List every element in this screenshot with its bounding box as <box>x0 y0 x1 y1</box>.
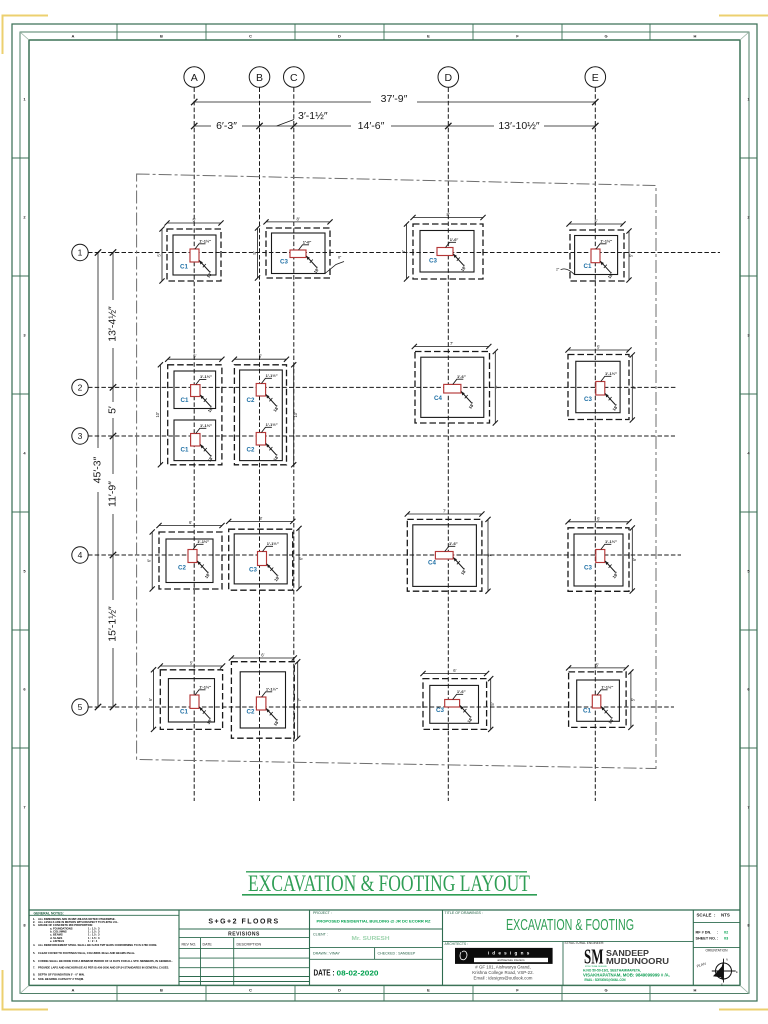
grid line C (vertical) <box>293 88 295 802</box>
svg-text:C4: C4 <box>434 395 442 402</box>
svg-text:F: F <box>516 34 519 39</box>
svg-text:G: G <box>604 987 607 992</box>
svg-text:5′: 5′ <box>597 516 600 521</box>
line under drawn row <box>310 958 443 960</box>
svg-text:N: N <box>726 958 728 962</box>
svg-text:SCALE: SCALE <box>697 913 712 918</box>
svg-text:PLAN: PLAN <box>696 962 707 969</box>
grid bubble D <box>438 67 459 88</box>
title block divider middle/project <box>309 910 311 985</box>
svg-text:9.: 9. <box>33 977 35 981</box>
svg-text:18″: 18″ <box>272 404 280 412</box>
grid line 3 (horizontal) <box>88 435 675 437</box>
yellow corner mark bottom-right <box>719 1009 768 1011</box>
svg-text:5′: 5′ <box>157 253 162 256</box>
svg-text:18″: 18″ <box>206 717 214 725</box>
grid bubble C <box>284 67 305 88</box>
svg-text:6: 6 <box>23 687 26 692</box>
footing C3 at B-4 <box>226 516 303 591</box>
svg-text:8′: 8′ <box>296 216 299 221</box>
svg-text:5′: 5′ <box>630 698 635 701</box>
architects logo <box>455 948 553 964</box>
svg-text:C1: C1 <box>180 264 188 271</box>
footing C3 at D-5 <box>420 668 495 732</box>
svg-text:5.: 5. <box>33 951 35 955</box>
svg-text:7.: 7. <box>33 965 35 969</box>
svg-text:5′: 5′ <box>252 251 257 254</box>
svg-text:18″: 18″ <box>207 454 215 462</box>
dimension line segments left (13'-4 1/2", 5', 11'-9", 15'-1 1/2") <box>112 253 114 708</box>
svg-text:6′-3″: 6′-3″ <box>216 120 237 132</box>
svg-text:6′: 6′ <box>453 668 456 673</box>
svg-text:C3: C3 <box>280 259 288 266</box>
grid bubble 5 <box>72 699 88 715</box>
svg-text:REV NO.: REV NO. <box>182 943 197 947</box>
divider drawn/checked <box>374 948 376 960</box>
svg-text:13′-10½″: 13′-10½″ <box>498 120 540 132</box>
svg-text:7′: 7′ <box>297 698 302 701</box>
grid bubble E <box>585 67 606 88</box>
svg-text:PROJECT :: PROJECT : <box>313 911 332 915</box>
grid bubble A <box>184 67 205 88</box>
svg-text:Krishna College Road, VSP-22.: Krishna College Road, VSP-22. <box>472 970 534 975</box>
svg-text:E: E <box>427 34 430 39</box>
footing C2 at A-4 <box>147 520 225 592</box>
svg-text:VISAKHAPATNAM, MOB: 9849099999: VISAKHAPATNAM, MOB: 9849099999 # /A. <box>583 973 670 978</box>
svg-text:1: 1 <box>78 248 83 258</box>
svg-text:i d e s i g n s: i d e s i g n s <box>488 951 531 956</box>
svg-text:EXCAVATION & FOOTING LAYOUT: EXCAVATION & FOOTING LAYOUT <box>248 871 530 896</box>
svg-text:5′: 5′ <box>259 354 262 359</box>
svg-text:1 : 2 : 4: 1 : 2 : 4 <box>88 939 98 943</box>
svg-text:SHEET NO.: SHEET NO. <box>696 936 716 940</box>
grid line D (vertical) <box>447 88 449 802</box>
svg-text:6′: 6′ <box>632 386 637 389</box>
footing C1 at E-5 <box>566 662 635 730</box>
svg-text:SOIL BEARING CAPACITY 2 T/SQM.: SOIL BEARING CAPACITY 2 T/SQM. <box>38 977 84 981</box>
footing C1 at A-1 <box>157 218 224 284</box>
svg-text:18″: 18″ <box>466 715 474 723</box>
svg-text:5: 5 <box>78 702 83 712</box>
svg-text:A: A <box>72 34 75 39</box>
svg-text:6′: 6′ <box>632 558 637 561</box>
svg-text:5′: 5′ <box>629 254 634 257</box>
border reference strip ticks horizontal <box>116 24 118 40</box>
svg-text:B: B <box>160 34 163 39</box>
svg-text:10′: 10′ <box>293 412 298 418</box>
svg-text::: : <box>717 936 718 940</box>
svg-text:13′-4½″: 13′-4½″ <box>107 306 119 342</box>
svg-text:TITLE OF DRAWINGS :: TITLE OF DRAWINGS : <box>445 911 483 915</box>
svg-text:18″: 18″ <box>607 271 615 279</box>
footing C1 pair at A-2/3 <box>155 354 225 468</box>
svg-text:C: C <box>249 987 252 992</box>
svg-text:DEPTH OF FOUNDATION 5′ - 0″ MI: DEPTH OF FOUNDATION 5′ - 0″ MIN. <box>38 973 85 977</box>
corner chamfer top-right <box>740 32 749 40</box>
yellow corner mark top-left <box>3 16 49 55</box>
yellow corner mark top-right <box>719 15 768 17</box>
svg-text:5: 5 <box>747 569 750 574</box>
svg-text:1′-1½″: 1′-1½″ <box>600 238 612 243</box>
svg-text:S: S <box>721 983 723 987</box>
footing C1 at E-1 <box>556 219 634 283</box>
svg-text:C1: C1 <box>584 263 592 270</box>
svg-text:C2: C2 <box>247 447 255 454</box>
svg-text:18″: 18″ <box>460 567 468 575</box>
svg-text:# GF 101, Aishwarya Grand,: # GF 101, Aishwarya Grand, <box>475 964 530 969</box>
svg-text:5′: 5′ <box>596 662 599 667</box>
svg-text:F: F <box>516 987 519 992</box>
svg-text:18″: 18″ <box>607 716 615 724</box>
svg-text:08-02-2020: 08-02-2020 <box>337 970 379 977</box>
grid line E (vertical) <box>594 88 596 802</box>
svg-text:7: 7 <box>747 805 750 810</box>
svg-text:C2: C2 <box>178 565 186 572</box>
svg-text:4: 4 <box>747 451 750 456</box>
border reference strip ticks vertical <box>12 157 29 159</box>
footing C3 at D-1 <box>401 212 486 282</box>
svg-text:14′-6″: 14′-6″ <box>358 120 385 132</box>
svg-text:8.: 8. <box>33 973 35 977</box>
svg-text:D: D <box>338 34 341 39</box>
svg-text:4.: 4. <box>33 943 35 947</box>
svg-text:8′: 8′ <box>446 212 449 217</box>
svg-text:CURING SHALL BE DONE FOR A MIN: CURING SHALL BE DONE FOR A MINIMUM PERIO… <box>38 959 173 963</box>
grid line A (vertical) <box>193 88 195 802</box>
svg-text:6′: 6′ <box>147 559 152 562</box>
footing C1 at A-5 <box>148 661 225 733</box>
svg-text:ALL REINFORCEMENT STEEL SHALL: ALL REINFORCEMENT STEEL SHALL BE Fe500 T… <box>38 943 157 947</box>
svg-text:C4: C4 <box>428 560 436 567</box>
svg-text:CLIENT :: CLIENT : <box>313 932 328 936</box>
footing C2 pair at B-2/3 <box>232 354 298 468</box>
grid bubble 1 <box>72 244 88 260</box>
title block divider project/title <box>442 910 444 985</box>
svg-text:18″: 18″ <box>468 401 476 409</box>
svg-text:3: 3 <box>23 333 26 338</box>
svg-text:EXCAVATION & FOOTING: EXCAVATION & FOOTING <box>506 917 634 934</box>
svg-text:DRAWN : VINAY: DRAWN : VINAY <box>313 951 341 955</box>
drawing title overline <box>246 871 527 873</box>
svg-text:37′-9″: 37′-9″ <box>381 93 408 105</box>
svg-text:B: B <box>160 987 163 992</box>
footing C3 at E-2 <box>565 345 636 423</box>
svg-text:H: H <box>694 34 697 39</box>
title block top line <box>29 909 740 911</box>
grid bubble 3 <box>72 428 88 444</box>
svg-text:G: G <box>604 34 607 39</box>
corner chamfer bottom-right <box>740 985 749 993</box>
svg-text:18″: 18″ <box>207 405 215 413</box>
svg-text:6: 6 <box>747 687 750 692</box>
svg-text:ARCHITECTS :: ARCHITECTS : <box>445 942 469 946</box>
title block divider notes/middle <box>178 910 180 985</box>
line under scale row <box>693 921 740 923</box>
svg-text:A: A <box>191 72 198 84</box>
svg-text:E: E <box>592 72 599 84</box>
dimension line 45'-3" (overall left) <box>97 253 99 708</box>
yellow corner mark bottom-left <box>3 970 49 1010</box>
line under project row <box>310 928 443 930</box>
line under sheet row <box>693 946 740 948</box>
svg-text:2: 2 <box>23 215 26 220</box>
svg-text:B: B <box>256 72 263 84</box>
svg-text:D: D <box>338 987 341 992</box>
footing C2 at B-5 <box>229 653 302 741</box>
svg-text:8′: 8′ <box>259 516 262 521</box>
svg-text:DATE :: DATE : <box>314 968 335 978</box>
svg-text:6′: 6′ <box>189 520 192 525</box>
svg-text:5′: 5′ <box>193 354 196 359</box>
dimension line 37'-9" (overall top) <box>194 101 595 103</box>
svg-text:NTS: NTS <box>721 913 730 918</box>
grid bubble B <box>249 67 270 88</box>
svg-text:1′-1½″: 1′-1½″ <box>266 422 278 427</box>
grid line B (vertical) <box>259 88 261 802</box>
svg-text:2″: 2″ <box>556 268 560 272</box>
grid line 5 (horizontal) <box>88 706 674 708</box>
svg-text:C1: C1 <box>583 708 591 715</box>
svg-text:C: C <box>249 34 252 39</box>
svg-text:5′: 5′ <box>190 661 193 666</box>
svg-text:18″: 18″ <box>273 574 281 582</box>
svg-text:7′: 7′ <box>450 341 453 346</box>
line under floors cell <box>179 928 310 930</box>
svg-text:1′-1½″: 1′-1½″ <box>266 373 278 378</box>
line under client row <box>310 947 443 949</box>
svg-text:45′-3″: 45′-3″ <box>92 456 104 483</box>
svg-text:3: 3 <box>747 333 750 338</box>
general notes list <box>33 917 173 981</box>
svg-text:H: H <box>694 987 697 992</box>
svg-text:1: 1 <box>747 97 750 102</box>
line under revisions header <box>179 937 310 939</box>
svg-text:18″: 18″ <box>206 270 214 278</box>
svg-text:5′: 5′ <box>107 406 119 414</box>
svg-text:2: 2 <box>747 215 750 220</box>
svg-text:6′: 6′ <box>261 653 264 658</box>
svg-text:1′-1½″: 1′-1½″ <box>197 539 209 544</box>
svg-text:Mr. SURESH: Mr. SURESH <box>352 936 390 942</box>
grid line 2 (horizontal) <box>88 386 677 388</box>
svg-text:CHECKED : SANDEEP: CHECKED : SANDEEP <box>378 951 416 955</box>
svg-text:5′: 5′ <box>192 218 195 223</box>
excavation boundary (dash-dot quad) <box>137 174 656 769</box>
footing C4 at D-4 <box>405 509 493 594</box>
svg-text:8″: 8″ <box>338 256 342 260</box>
svg-text:4: 4 <box>78 550 83 560</box>
svg-text:C2: C2 <box>247 397 255 404</box>
footing C4 at D-2/3 <box>412 341 500 426</box>
svg-text:6.: 6. <box>33 959 35 963</box>
svg-text:E: E <box>427 987 430 992</box>
svg-text:D: D <box>445 72 453 84</box>
svg-text:1′-1½″: 1′-1½″ <box>267 541 279 546</box>
svg-text:1′-1½″: 1′-1½″ <box>601 684 613 689</box>
svg-text:4: 4 <box>23 451 26 456</box>
grid line 4 (horizontal) <box>88 554 681 556</box>
svg-text:DESCRIPTION: DESCRIPTION <box>237 943 262 947</box>
svg-text:PROPOSED RESIDENTIAL BUILDING: PROPOSED RESIDENTIAL BUILDING @ JR DC EC… <box>317 918 432 923</box>
svg-text:C3: C3 <box>249 567 257 574</box>
grid line 1 (horizontal) <box>88 252 720 254</box>
svg-text:6′: 6′ <box>299 557 304 560</box>
grid bubble 4 <box>72 547 88 563</box>
svg-text:architecture interiors: architecture interiors <box>497 958 525 962</box>
svg-text:1′-1½″: 1′-1½″ <box>605 371 617 376</box>
svg-text:3: 3 <box>78 431 83 441</box>
svg-text:2: 2 <box>78 383 83 393</box>
svg-text:03: 03 <box>724 936 728 940</box>
svg-text:EMAIL : SDESIGNS@GMAIL.COM: EMAIL : SDESIGNS@GMAIL.COM <box>585 978 626 982</box>
svg-text:S+G+2 FLOORS: S+G+2 FLOORS <box>208 918 279 925</box>
svg-text:C: C <box>290 72 298 84</box>
svg-text:PROVIDE LAPS AND ANCHORAGE AS: PROVIDE LAPS AND ANCHORAGE AS PER IS:456… <box>38 965 169 969</box>
svg-text:18″: 18″ <box>611 403 619 411</box>
svg-text:8: 8 <box>23 923 26 928</box>
svg-text:1′-6″: 1′-6″ <box>303 239 312 244</box>
svg-text:7: 7 <box>23 805 26 810</box>
dimension line segments top (6'-3", 14'-6", 13'-10 1/2") <box>194 125 595 127</box>
grid bubble 2 <box>72 379 88 395</box>
svg-text:5′: 5′ <box>597 345 600 350</box>
svg-text:1′-1½″: 1′-1½″ <box>266 686 278 691</box>
svg-text:5′: 5′ <box>490 702 495 705</box>
svg-text:C1: C1 <box>180 709 188 716</box>
svg-text:02: 02 <box>724 930 728 934</box>
svg-text:18″: 18″ <box>204 571 212 579</box>
svg-text:1′-1½″: 1′-1½″ <box>200 374 212 379</box>
svg-text:1′-1½″: 1′-1½″ <box>605 539 617 544</box>
svg-text:MUDUNOORU: MUDUNOORU <box>606 956 669 966</box>
svg-text:1′-6″: 1′-6″ <box>457 689 466 694</box>
svg-text:C3: C3 <box>584 396 592 403</box>
line under title cell <box>443 941 694 943</box>
svg-text:18″: 18″ <box>611 571 619 579</box>
svg-text:C1: C1 <box>181 397 189 404</box>
svg-text:7′: 7′ <box>488 554 493 557</box>
svg-text:15′-1½″: 15′-1½″ <box>107 606 119 642</box>
svg-text:C3: C3 <box>584 565 592 572</box>
svg-text:e. LINTELS: e. LINTELS <box>50 939 64 943</box>
svg-text:C3: C3 <box>429 258 437 265</box>
footing C3 at B/C-1 <box>252 216 344 280</box>
divider architects/structural <box>562 942 564 986</box>
svg-text:1′-1½″: 1′-1½″ <box>200 423 212 428</box>
corner chamfer bottom-left <box>20 985 29 993</box>
svg-text:5′: 5′ <box>594 219 597 224</box>
drawing title underline <box>242 894 537 896</box>
svg-text:8: 8 <box>747 923 750 928</box>
title block divider title/scale column <box>692 910 694 985</box>
svg-text:DATE: DATE <box>203 943 213 947</box>
svg-text:5′: 5′ <box>401 250 406 253</box>
svg-text:6′: 6′ <box>148 698 153 701</box>
svg-text:1′-6″: 1′-6″ <box>457 374 466 379</box>
svg-text:E: E <box>736 970 738 974</box>
svg-text:18″: 18″ <box>273 718 281 726</box>
svg-text:1′-1½″: 1′-1½″ <box>199 238 211 243</box>
svg-text::: : <box>717 930 718 934</box>
svg-text:7′: 7′ <box>443 509 446 514</box>
footing C3 at E-4 <box>565 516 636 593</box>
svg-text:10′: 10′ <box>155 412 160 418</box>
svg-text:5: 5 <box>23 569 26 574</box>
svg-text:C3: C3 <box>436 707 444 714</box>
svg-text:3′-1½″: 3′-1½″ <box>298 110 328 122</box>
svg-text:C1: C1 <box>181 447 189 454</box>
svg-text:REVISIONS: REVISIONS <box>228 932 260 938</box>
svg-text:GENERAL NOTES:: GENERAL NOTES: <box>34 911 64 915</box>
svg-text:3.: 3. <box>33 923 35 927</box>
SM monogram logo <box>584 945 607 969</box>
svg-text:ORIENTATION: ORIENTATION <box>705 949 728 953</box>
svg-text:C2: C2 <box>247 709 255 716</box>
svg-text:RF # DN.: RF # DN. <box>696 930 712 934</box>
svg-text:18″: 18″ <box>460 264 468 272</box>
svg-text::: : <box>714 913 716 918</box>
corner chamfer top-left <box>20 32 29 40</box>
revisions table grid <box>179 947 310 949</box>
svg-text:1′-6″: 1′-6″ <box>450 237 459 242</box>
north compass <box>712 958 738 987</box>
svg-text:1′-6″: 1′-6″ <box>449 541 458 546</box>
svg-text:CLEAR COVER TO FOOTINGS 50mm,: CLEAR COVER TO FOOTINGS 50mm, COLUMNS 40… <box>38 951 135 955</box>
svg-text:A: A <box>72 987 75 992</box>
svg-text:11′-9″: 11′-9″ <box>107 481 119 507</box>
svg-text:1′-1½″: 1′-1½″ <box>199 684 211 689</box>
svg-text:Email : idesigns@outlook.com: Email : idesigns@outlook.com <box>474 975 533 980</box>
svg-text:7′: 7′ <box>495 385 500 388</box>
svg-text:1: 1 <box>23 97 26 102</box>
